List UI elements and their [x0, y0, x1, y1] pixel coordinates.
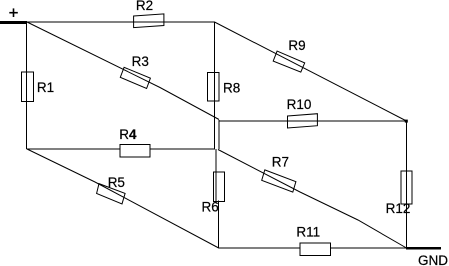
wire bold + terminal lead	[0, 21, 27, 24]
resistor R6	[213, 172, 224, 202]
svg-text:R9: R9	[288, 38, 305, 53]
svg-text:R10: R10	[287, 97, 312, 112]
wire middle vertical B-D (through R8)	[214, 22, 216, 149]
svg-text:R2: R2	[136, 0, 153, 13]
resistor R12	[401, 171, 412, 204]
svg-text:R1: R1	[37, 80, 54, 95]
resistor R11	[300, 243, 330, 256]
resistor R10	[288, 114, 318, 128]
wire bottom horizontal F-G	[219, 247, 407, 249]
wire left vertical A-E	[26, 22, 28, 149]
wire diagonal D-G (through R7)	[218, 150, 407, 249]
svg-text:R4: R4	[119, 127, 137, 142]
node + (positive supply terminal label)	[9, 8, 17, 17]
wire diagonal B-C (through R9)	[215, 22, 407, 121]
svg-text:R7: R7	[272, 155, 289, 170]
resistor R1	[21, 72, 33, 101]
wire horizontal E-D (through R4)	[27, 148, 215, 150]
wire diagonal E-F (through R5)	[27, 149, 219, 248]
svg-text:GND: GND	[418, 253, 448, 266]
svg-text:R12: R12	[386, 201, 411, 216]
resistor R4	[120, 144, 150, 157]
wire horizontal D-C (through R10)	[219, 120, 407, 122]
resistor R3	[120, 67, 150, 88]
svg-text:R5: R5	[108, 175, 125, 190]
resistor R8	[207, 73, 218, 101]
resistor R2	[134, 14, 164, 28]
wire short vertical at node D	[218, 120, 220, 149]
svg-text:R6: R6	[202, 200, 219, 215]
svg-text:R3: R3	[132, 54, 149, 69]
resistor R7	[262, 170, 296, 192]
wire right vertical C-G (through R12)	[406, 121, 408, 248]
wire top horizontal A-B	[26, 21, 215, 23]
resistor R5	[97, 184, 126, 204]
wire vertical D-F lower	[218, 201, 220, 249]
resistor R9	[273, 51, 305, 72]
node C junction dot	[405, 120, 408, 123]
wire bold GND lead	[406, 247, 441, 250]
svg-text:R11: R11	[296, 225, 320, 240]
wire diagonal A-D (through R3)	[27, 22, 219, 120]
wire vertical D-F upper (through R6)	[215, 149, 217, 202]
svg-text:R8: R8	[223, 80, 240, 95]
